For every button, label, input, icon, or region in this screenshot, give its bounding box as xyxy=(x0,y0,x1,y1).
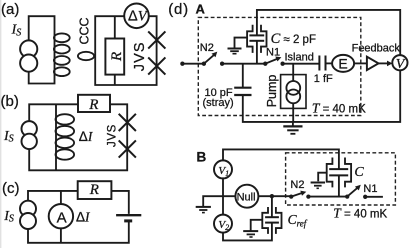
pump current source xyxy=(286,81,300,103)
ground of Cref shield xyxy=(243,220,262,237)
top wire V1 to C xyxy=(223,149,339,169)
svg-text:T = 40 mK: T = 40 mK xyxy=(333,206,387,221)
capacitor C 2pF bottom lead xyxy=(256,41,258,64)
wire Null to N2 xyxy=(258,195,291,197)
pump bottom lead xyxy=(292,103,294,122)
coil ΔI (b) xyxy=(56,114,75,159)
svg-text:ΔV: ΔV xyxy=(128,9,149,25)
ammeter A (c) xyxy=(49,204,73,228)
capacitor C 2pF shield right xyxy=(261,25,267,53)
switch N2 (A) xyxy=(202,52,225,66)
svg-text:R: R xyxy=(109,52,125,62)
svg-text:CCC: CCC xyxy=(77,17,91,44)
wire amp to V with arrow xyxy=(379,61,393,67)
svg-text:Island: Island xyxy=(285,52,314,64)
voltmeter ΔV (a) xyxy=(124,4,149,29)
svg-text:R: R xyxy=(88,97,98,113)
capacitor C 2pF plates xyxy=(249,35,264,40)
current source IS (b) xyxy=(22,121,37,149)
ground (B left) xyxy=(196,207,211,213)
island wire xyxy=(283,63,320,65)
label 10 pF (stray) xyxy=(203,87,234,109)
resistor R (b) xyxy=(78,95,110,113)
svg-text:ΔI: ΔI xyxy=(79,129,94,144)
current source IS (a) xyxy=(20,40,37,71)
battery (c) xyxy=(116,215,141,221)
svg-text:N2: N2 xyxy=(290,179,304,191)
svg-text:V: V xyxy=(396,57,406,72)
josephson junction X bottom (b) xyxy=(119,140,136,157)
switch N2 (B) xyxy=(289,191,310,199)
ground of C shield (B) xyxy=(311,173,327,189)
wire loop (b) xyxy=(29,104,127,170)
ground of C shield xyxy=(228,38,248,54)
capacitor C 2pF shield left xyxy=(247,25,253,53)
resistor R (c) xyxy=(78,181,112,199)
Cref top lead xyxy=(271,196,273,217)
svg-text:(stray): (stray) xyxy=(203,97,234,109)
svg-text:(b): (b) xyxy=(1,93,19,110)
svg-text:JVS: JVS xyxy=(132,41,148,71)
stray capacitor 10 pF xyxy=(234,88,251,95)
svg-text:E: E xyxy=(338,56,347,72)
svg-text:JVS: JVS xyxy=(106,124,118,147)
switch N1 (A) xyxy=(263,57,285,66)
output wire (B) xyxy=(365,196,383,198)
svg-text:T = 40 mK: T = 40 mK xyxy=(312,100,366,115)
svg-text:A: A xyxy=(57,209,67,226)
svg-text:N2: N2 xyxy=(200,42,214,54)
capacitor Cref shield left xyxy=(262,207,268,234)
svg-text:C: C xyxy=(354,165,364,180)
svg-text:(c): (c) xyxy=(2,180,20,197)
feedback top wire xyxy=(257,10,400,55)
svg-text:(a): (a) xyxy=(1,1,19,18)
coupling capacitor 1 fF xyxy=(319,56,332,71)
svg-text:A: A xyxy=(196,2,206,17)
current source IS (c) xyxy=(20,201,36,229)
svg-text:N1: N1 xyxy=(266,47,280,59)
amplifier triangle xyxy=(367,57,379,70)
svg-text:ΔI: ΔI xyxy=(76,210,91,225)
CCC primary coil (a) xyxy=(54,33,70,76)
pump box xyxy=(281,75,306,109)
svg-text:Null: Null xyxy=(237,191,256,203)
capacitor C (B) shield right xyxy=(345,158,351,188)
ground (A bottom) xyxy=(283,122,302,134)
dashed enclosure box A xyxy=(198,17,360,115)
josephson junction X top (b) xyxy=(119,114,136,131)
svg-text:Pump: Pump xyxy=(265,75,279,108)
stray capacitor lead xyxy=(242,64,244,88)
electrometer E xyxy=(332,55,354,72)
wire V1 to V2 xyxy=(222,178,224,214)
junction dot Cref xyxy=(270,194,274,198)
svg-text:B: B xyxy=(197,150,207,165)
svg-text:N1: N1 xyxy=(363,183,377,195)
svg-text:C ≈ 2 pF: C ≈ 2 pF xyxy=(271,31,316,47)
secondary winding wire (b) xyxy=(55,104,57,170)
pump top lead xyxy=(292,64,294,81)
capacitor C (B) shield left xyxy=(327,158,333,188)
capacitor C (B) bottom lead xyxy=(338,175,340,196)
wire N2 to N1 (B) xyxy=(308,196,347,198)
ammeter branch wire (c) xyxy=(60,191,62,243)
josephson junction X bottom (a) xyxy=(148,57,165,74)
input terminal dot xyxy=(180,62,184,66)
wire loop (c) xyxy=(28,191,129,243)
capacitor C (B) plates xyxy=(329,169,348,175)
wire secondary loop (a) xyxy=(95,16,156,85)
switch N1 (B) xyxy=(345,185,367,199)
input wire xyxy=(182,63,204,65)
scan border left xyxy=(0,0,1,248)
wire N2 to N1 xyxy=(222,63,265,65)
wire E to amp xyxy=(354,62,367,64)
josephson junction X top (a) xyxy=(148,31,165,48)
capacitor Cref shield right xyxy=(276,207,282,234)
wire primary loop (a) xyxy=(29,16,55,83)
left wire to ground xyxy=(203,196,235,206)
svg-text:R: R xyxy=(89,182,99,198)
capacitor Cref plates xyxy=(265,217,279,222)
bottom wire V2 to Cref xyxy=(223,223,272,241)
null detector xyxy=(235,185,258,208)
dashed enclosure box B xyxy=(286,153,396,205)
source V2 xyxy=(214,215,232,233)
source V1 xyxy=(214,160,232,178)
svg-text:Feedback: Feedback xyxy=(352,43,401,55)
CCC secondary turn (a) xyxy=(78,52,94,60)
ground return wire xyxy=(243,70,400,122)
resistor R (a) xyxy=(105,16,124,85)
svg-text:1 fF: 1 fF xyxy=(314,73,333,85)
svg-text:(d): (d) xyxy=(168,1,189,18)
voltmeter V xyxy=(392,55,407,72)
